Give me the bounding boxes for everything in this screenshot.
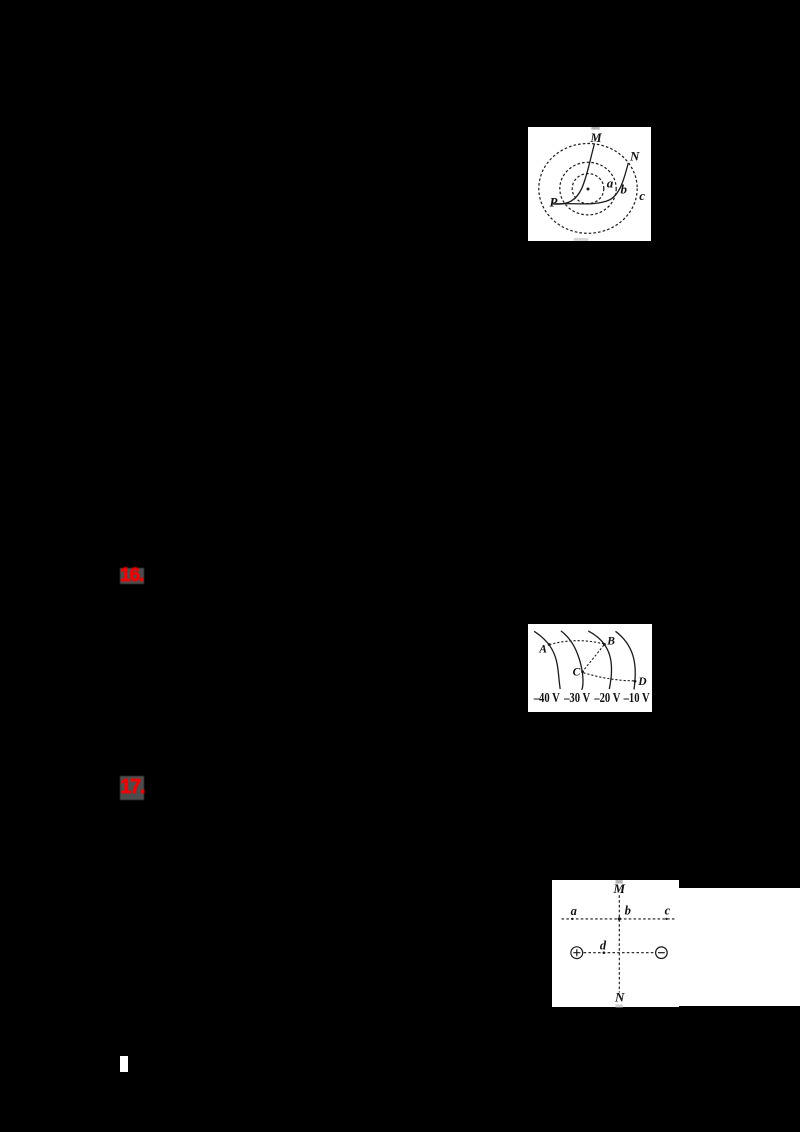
- svg-text:c: c: [639, 188, 645, 203]
- negative charge symbol: [656, 946, 668, 958]
- equipotential dashed circle inner: [572, 174, 604, 204]
- point b: [618, 917, 621, 920]
- diagram box 1: charged-particle trajectories in equipotential circles: [528, 127, 651, 241]
- svg-text:c: c: [665, 903, 671, 917]
- svg-text:B: B: [606, 635, 615, 647]
- dashed path C to D: [583, 673, 634, 681]
- positive charge symbol: [571, 946, 583, 958]
- point a: [571, 917, 573, 919]
- svg-text:a: a: [571, 904, 577, 918]
- grey scan tab bottom: [616, 1004, 623, 1007]
- equipotential arc -20V: [588, 631, 611, 689]
- svg-text:C: C: [573, 667, 581, 679]
- dashed path B to C: [583, 645, 604, 671]
- dashed line through charges and d: [584, 951, 655, 953]
- trajectory P to M: [553, 144, 595, 205]
- diagram box 3: dipole with points a b c d on lines MN: [552, 880, 679, 1007]
- svg-text:–40 V: –40 V: [533, 690, 560, 706]
- svg-text:d: d: [600, 938, 607, 952]
- equipotential dashed circle middle: [560, 162, 616, 215]
- equipotential arc -40V: [534, 631, 560, 689]
- point d: [603, 951, 606, 954]
- grey scan tab bottom: [574, 238, 589, 241]
- svg-text:P: P: [550, 195, 559, 210]
- svg-text:a: a: [607, 176, 614, 191]
- svg-text:–20 V: –20 V: [593, 690, 620, 706]
- red question tag 16.: [120, 568, 144, 585]
- equipotential arc -10V: [616, 631, 636, 689]
- svg-text:b: b: [625, 903, 631, 917]
- svg-text:M: M: [590, 131, 603, 145]
- point C: [581, 670, 584, 673]
- grey scan tab top: [591, 127, 599, 130]
- center charge dot: [587, 188, 590, 191]
- dashed line through a b c: [562, 917, 677, 919]
- point c: [665, 917, 667, 919]
- red question tag 17.: [120, 776, 144, 800]
- equipotential arc -30V: [561, 631, 583, 690]
- grey scan tab top: [616, 880, 623, 884]
- svg-text:N: N: [629, 149, 640, 164]
- svg-text:–30 V: –30 V: [563, 690, 590, 706]
- equipotential dashed circle outer: [539, 144, 637, 234]
- voltage labels: [533, 690, 650, 706]
- svg-text:N: N: [614, 989, 625, 1004]
- dashed line M N vertical: [618, 895, 620, 992]
- point A: [548, 643, 551, 646]
- svg-text:b: b: [621, 182, 628, 197]
- svg-text:D: D: [637, 676, 647, 688]
- point D: [634, 680, 637, 683]
- trajectory P to N: [553, 163, 628, 204]
- svg-text:–10 V: –10 V: [623, 690, 650, 706]
- diagram box 2: equipotential arcs A B C D with voltages: [528, 624, 652, 712]
- point B: [603, 643, 606, 646]
- dashed path A to B: [549, 641, 604, 645]
- svg-text:A: A: [538, 644, 547, 656]
- small white mark bottom left: [120, 1056, 128, 1072]
